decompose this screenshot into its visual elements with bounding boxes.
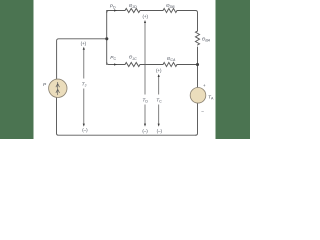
wire: top branch middle segment xyxy=(140,10,163,12)
annotation TC double arrow xyxy=(158,75,160,126)
resistor theta_DB zigzag xyxy=(163,8,177,12)
arrow PC (heat flow middle branch) xyxy=(114,63,117,65)
wire: right vertical below theta_BA to node xyxy=(197,47,199,65)
wire: TA source bottom to bottom rail xyxy=(196,104,198,136)
wire: top branch right segment to top-right corner xyxy=(177,11,198,32)
voltage source TA (ambient temperature) xyxy=(190,88,206,104)
wire: bottom rail xyxy=(57,98,196,136)
wire: middle branch right segment to node xyxy=(177,64,198,66)
svg-text:(–): (–) xyxy=(82,127,88,132)
node A (ambient): junction dot xyxy=(196,63,199,66)
wire: left loop top (source top to junction node) xyxy=(57,39,107,80)
resistor theta_CA zigzag xyxy=(163,62,177,66)
wire: middle branch left segment xyxy=(107,63,125,65)
wire: node to TA source top xyxy=(197,65,199,88)
left green panel xyxy=(0,0,34,139)
svg-text:(+): (+) xyxy=(156,68,162,73)
right green panel xyxy=(216,0,251,139)
resistor theta_JD zigzag xyxy=(125,8,140,12)
current source P (power source circle) xyxy=(49,79,67,97)
svg-text:(+): (+) xyxy=(142,14,148,19)
wire: middle branch middle segment xyxy=(140,64,163,66)
wire: top branch left segment xyxy=(107,11,125,13)
white page background xyxy=(0,0,250,139)
svg-text:(–): (–) xyxy=(157,128,163,133)
node TJ: junction dot xyxy=(105,37,108,40)
annotation TD double arrow xyxy=(144,21,146,126)
svg-text:+: + xyxy=(203,83,206,88)
wire: junction vertical (node TJ) xyxy=(106,11,108,65)
svg-text:(–): (–) xyxy=(142,128,148,133)
resistor theta_BA zigzag (vertical) xyxy=(195,31,199,45)
svg-text:(+): (+) xyxy=(81,41,87,46)
annotation TJ double arrow xyxy=(83,48,85,126)
arrow PD (heat flow top branch) xyxy=(114,9,117,11)
resistor theta_JC zigzag xyxy=(125,62,140,66)
